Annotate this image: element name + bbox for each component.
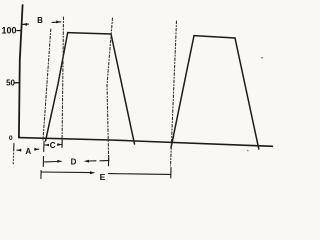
pulse 2 falling edge: [235, 38, 259, 149]
dash-dot reference line 3 (pulse fall corner): [107, 18, 113, 162]
svg-text:50: 50: [6, 78, 15, 87]
dimension A ticks and arrows: [13, 142, 44, 165]
dash-dot reference line 2 (pulse top corner): [62, 17, 64, 146]
svg-text:C: C: [50, 141, 56, 150]
dash-dot reference line 4 (pulse 2 start): [171, 21, 177, 166]
x-axis baseline: [19, 138, 273, 147]
y-axis: [19, 5, 23, 138]
dash-dot reference line 1 (pulse start): [43, 29, 51, 140]
dimension D row: [43, 156, 108, 167]
pulse 1 rising edge: [46, 33, 68, 141]
dimension E row: [41, 168, 171, 179]
tick 50: [15, 82, 19, 84]
svg-text:A: A: [25, 147, 31, 156]
dimension C arrows: [45, 141, 62, 148]
pulse 1 top: [68, 33, 111, 34]
svg-text:D: D: [71, 158, 77, 167]
svg-text:B: B: [37, 16, 43, 25]
tick 100: [17, 29, 22, 31]
dimension B right arrow: [52, 21, 61, 24]
svg-text:0: 0: [9, 135, 13, 142]
dimension B left arrow: [22, 23, 28, 26]
svg-text:100: 100: [1, 26, 16, 36]
pulse 1 falling edge: [111, 34, 135, 144]
pulse 2 rising edge: [171, 36, 194, 148]
pulse 2 top: [194, 36, 235, 38]
scan speckles: [247, 57, 263, 151]
svg-text:E: E: [100, 172, 106, 182]
